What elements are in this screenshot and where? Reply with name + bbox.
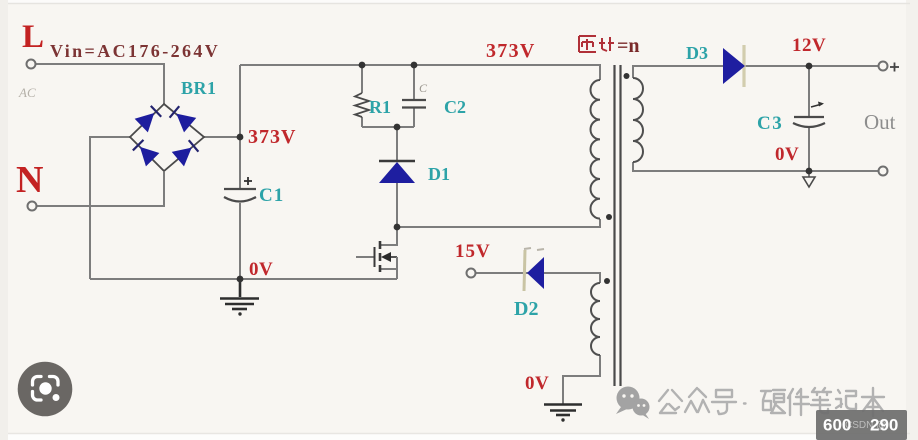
wire bridge right to HV node: [204, 136, 240, 138]
bridge diode top-right: [168, 105, 196, 133]
wire HV vertical C1 branch: [239, 65, 241, 188]
resistor R1: [355, 93, 369, 117]
svg-text:CSDN @: CSDN @: [845, 420, 886, 431]
svg-text:373V: 373V: [248, 126, 296, 148]
wire C3 bottom lead: [808, 128, 810, 177]
transformer aux phase dot: [604, 278, 610, 284]
node C3 bottom: [806, 168, 813, 175]
svg-text:D3: D3: [686, 43, 708, 63]
node C3 top: [806, 63, 813, 70]
node RC bottom: [394, 124, 401, 131]
watermark wechat icon: [616, 387, 650, 420]
svg-text:12V: 12V: [792, 35, 826, 56]
ground at C1: [220, 279, 259, 309]
terminal OUT-: [879, 167, 888, 176]
ground at aux winding: [544, 405, 582, 416]
wire C2 top lead: [413, 65, 415, 99]
node C2 tap: [411, 62, 418, 69]
svg-text:D1: D1: [428, 164, 450, 184]
wire L input: [36, 64, 164, 104]
node drain: [394, 224, 401, 231]
svg-text:C1: C1: [259, 185, 284, 206]
bridge rectifier BR1 diamond: [130, 104, 204, 171]
svg-text:C: C: [419, 81, 428, 95]
wire HV top rail to transformer: [240, 65, 600, 80]
svg-text:N: N: [16, 159, 43, 201]
wire 0V rail: [90, 278, 397, 280]
terminal OUT+: [879, 62, 888, 71]
transformer T1 primary winding: [591, 80, 601, 219]
bridge diode bottom-left: [131, 138, 159, 166]
wire R1 top lead: [361, 65, 363, 93]
wire C1 bottom lead: [239, 203, 241, 279]
transformer core: [615, 65, 621, 386]
wire bridge left to 0V: [90, 137, 130, 279]
svg-text:C2: C2: [444, 97, 466, 117]
transformer T1 secondary winding: [633, 78, 643, 162]
wire 15V to aux winding: [476, 273, 600, 283]
capacitor C3: [793, 102, 825, 128]
svg-text:R1: R1: [369, 97, 391, 117]
wire aux bottom to ground: [563, 355, 600, 404]
wire MOSFET source lead: [380, 269, 397, 279]
svg-text:0V: 0V: [249, 259, 273, 280]
terminal N: [28, 202, 37, 211]
diode D3: [723, 45, 745, 87]
capacitor C2: [402, 100, 426, 108]
wire secondary top to output: [633, 66, 878, 78]
node 373V junction: [237, 134, 244, 141]
bridge diode top-left: [135, 104, 163, 132]
wire RC bottom link: [362, 126, 414, 128]
wire N input: [37, 172, 164, 206]
terminal L: [27, 60, 36, 69]
svg-text:BR1: BR1: [181, 78, 217, 98]
capacitor C1: [224, 177, 256, 202]
svg-text:Out: Out: [864, 110, 896, 134]
node R1 tap: [359, 62, 366, 69]
wire C2 bottom lead: [413, 108, 415, 127]
watermark lens icon: [18, 362, 73, 417]
wire MOSFET drain lead: [380, 227, 397, 245]
wire secondary bottom rail: [633, 162, 878, 171]
svg-text:AC: AC: [18, 85, 36, 100]
wire D1 cathode lead: [396, 127, 398, 160]
svg-text:L: L: [22, 19, 44, 55]
watermark text strokes: [659, 388, 884, 416]
bridge diode bottom-right: [172, 139, 200, 167]
svg-text:0V: 0V: [525, 373, 549, 394]
watermark size box: [816, 410, 907, 440]
wire R1 bottom lead: [361, 117, 363, 127]
wire drain rail to primary: [397, 219, 600, 227]
wire MOSFET gate lead: [356, 256, 374, 258]
svg-text:D2: D2: [514, 298, 538, 320]
svg-text:=n: =n: [617, 35, 640, 57]
svg-text:373V: 373V: [486, 40, 536, 62]
transistor Q1 MOSFET: [375, 241, 398, 272]
svg-text:C3: C3: [757, 113, 783, 134]
diode D1: [379, 161, 415, 183]
svg-text:0V: 0V: [775, 144, 799, 165]
diode D2: [524, 248, 544, 291]
svg-text:15V: 15V: [455, 241, 491, 262]
wire C3 top lead: [808, 66, 810, 116]
transformer T1 aux winding: [591, 283, 600, 355]
terminal 15V: [467, 269, 476, 278]
plus sign at OUT+: [890, 63, 899, 72]
transformer secondary phase dot: [624, 73, 630, 79]
label turns ratio: [579, 36, 614, 52]
wire D1 anode lead: [396, 183, 398, 227]
output ground marker triangle: [803, 177, 815, 187]
svg-text:Vin=AC176-264V: Vin=AC176-264V: [50, 41, 220, 61]
transformer primary phase dot: [606, 214, 612, 220]
node 0V C1: [237, 276, 244, 283]
